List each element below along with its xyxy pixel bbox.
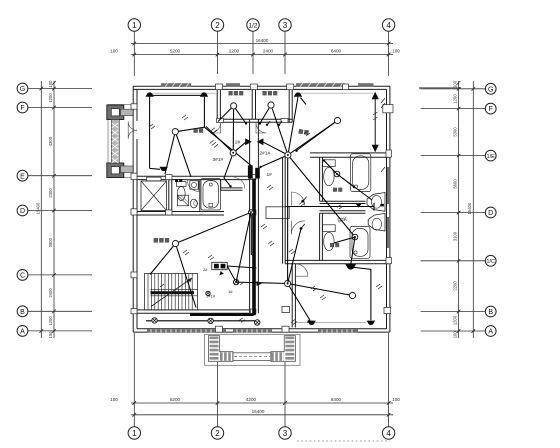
dimension arrow line <box>374 95 376 150</box>
bottom dimension line total <box>131 414 393 416</box>
top grid extension lines <box>134 32 388 77</box>
svg-text:4: 4 <box>386 21 391 30</box>
right dimension labels (rotated) <box>452 80 472 338</box>
corridor lamp X2 <box>208 318 213 323</box>
interior central wall <box>251 89 253 119</box>
black wall fill door jamb right <box>255 168 260 179</box>
svg-text:D: D <box>20 208 25 215</box>
top exterior wall <box>133 85 390 87</box>
right grid bubble G <box>485 83 496 94</box>
label bath 1 <box>333 188 342 192</box>
node N5 <box>285 280 291 286</box>
svg-text:5600: 5600 <box>452 179 457 189</box>
bottom wall window bands <box>147 329 226 332</box>
bedroom top wall <box>285 259 389 261</box>
svg-text:100: 100 <box>392 48 400 53</box>
svg-text:6400: 6400 <box>331 48 342 53</box>
elevator block bottom wall <box>137 211 224 213</box>
svg-text:15400: 15400 <box>35 202 40 214</box>
bath2 light L9 <box>352 234 358 240</box>
bottom dotted mark <box>297 440 390 442</box>
svg-text:100: 100 <box>452 331 457 339</box>
sill line bedroom <box>297 322 366 324</box>
shower pan <box>178 195 189 206</box>
wire L4 branch <box>297 121 338 151</box>
stair well walls <box>137 309 250 311</box>
wire W4 to W6 <box>351 267 371 320</box>
left dimension labels (rotated) <box>35 80 53 339</box>
wire N5 to W5 <box>288 284 310 320</box>
bottom grid bubble 2 <box>211 427 223 439</box>
svg-text:F: F <box>20 105 24 112</box>
svg-text:A: A <box>20 329 25 336</box>
electric riser trunk <box>252 179 256 316</box>
left grid bubble D <box>17 205 28 216</box>
corridor wire right <box>285 206 374 208</box>
label bath 2 <box>330 243 339 247</box>
door arc bath2 <box>291 221 305 235</box>
svg-text:6400: 6400 <box>331 397 342 402</box>
left grid bubble C <box>17 270 28 281</box>
svg-text:G: G <box>20 86 25 93</box>
left grid lines <box>28 89 92 331</box>
tub room east wall <box>220 180 222 191</box>
wire L3 to L6 <box>271 105 288 155</box>
vanity basin 1 <box>367 193 385 212</box>
svg-text:F: F <box>489 106 493 113</box>
svg-text:1/2: 1/2 <box>249 22 258 29</box>
svg-text:1200: 1200 <box>48 93 53 103</box>
hatch anteroom lower <box>289 249 295 254</box>
balcony outer rim <box>205 334 300 365</box>
hatch marks <box>149 98 385 325</box>
wire L5 spokes <box>233 142 246 153</box>
left bay vertical band <box>111 120 119 164</box>
svg-text:100: 100 <box>48 331 53 339</box>
svg-text:1: 1 <box>132 21 137 30</box>
wire L3 branch <box>260 105 271 124</box>
balcony wall right L <box>271 336 296 362</box>
elevator car <box>141 181 167 211</box>
svg-text:2#1#: 2#1# <box>260 151 271 157</box>
svg-text:1: 1 <box>132 429 137 438</box>
wires bath1 <box>324 161 337 175</box>
trunk bottom horizontal <box>190 313 254 316</box>
ceiling light L3 <box>268 102 274 108</box>
central chase wall <box>249 119 251 313</box>
bedroom west wall <box>291 264 293 328</box>
bath 1 bottom wall <box>320 200 366 202</box>
svg-text:B: B <box>20 309 25 316</box>
top grid bubble 3 <box>279 19 291 31</box>
right grid bubble 1/C <box>485 255 496 266</box>
right grid bubble A <box>485 326 496 337</box>
label living room <box>298 129 309 135</box>
washing machine <box>190 181 198 189</box>
svg-text:4300: 4300 <box>48 136 53 146</box>
floor lamp W6 <box>367 321 375 325</box>
wire X3 to J1 <box>236 212 251 282</box>
left grid bubble F <box>17 102 28 113</box>
bottom dimension line segments <box>131 402 393 404</box>
wire L6 spokes <box>263 142 288 155</box>
junction dots <box>245 122 247 124</box>
interior wall rooms bottom <box>217 118 292 120</box>
bottom exterior wall <box>133 331 390 333</box>
balcony center band <box>233 353 271 361</box>
svg-text:2#: 2# <box>203 267 208 272</box>
svg-text:4: 4 <box>386 429 391 438</box>
bottom grid bubble 3 <box>279 427 291 439</box>
hall lamp X3 <box>233 279 238 284</box>
right block top wall <box>310 152 389 154</box>
wire L7 spokes <box>150 244 176 275</box>
label room B <box>263 91 278 95</box>
riser wire <box>149 97 151 169</box>
stair direction arrow <box>151 278 192 307</box>
svg-text:D: D <box>488 210 493 217</box>
bottom dimension ticks <box>133 401 391 416</box>
svg-text:2400: 2400 <box>48 288 53 298</box>
left grid bubble A <box>17 326 28 337</box>
svg-text:1/E: 1/E <box>486 154 495 160</box>
svg-text:100: 100 <box>392 397 400 402</box>
sill line left room <box>152 92 216 94</box>
wire N5 to L8 <box>288 284 353 296</box>
top grid bubble 1 <box>128 19 140 31</box>
sconce up n3 <box>294 92 302 96</box>
ceiling light L1 <box>172 129 178 135</box>
interior wall room B right <box>288 89 290 122</box>
wall lamp W2 <box>245 138 252 145</box>
left grid bubble E <box>17 170 28 181</box>
ceiling light L6 <box>285 152 291 158</box>
wire X3 to N5 <box>236 282 288 283</box>
svg-text:1#1#: 1#1# <box>206 294 216 299</box>
svg-text:100: 100 <box>48 80 53 88</box>
duct box <box>266 207 289 219</box>
wall lamp W3 <box>257 138 264 145</box>
bathtub 1 <box>201 179 221 210</box>
right exterior wall <box>389 86 391 332</box>
small basin <box>194 201 198 206</box>
bath west wall <box>319 157 321 201</box>
svg-text:1200: 1200 <box>452 94 457 104</box>
top dimension labels <box>110 38 400 54</box>
svg-text:4200: 4200 <box>246 397 257 402</box>
left bay stub bottom <box>121 166 133 173</box>
svg-text:G: G <box>488 86 493 93</box>
switch room B a <box>266 124 268 126</box>
understair lamp <box>206 291 210 295</box>
stair handrail <box>151 291 195 294</box>
ceiling light L5 <box>230 150 236 156</box>
bathtub 3 <box>350 227 370 259</box>
top grid bubble 2 <box>211 19 223 31</box>
top grid bubble 1/2 <box>247 19 259 31</box>
svg-text:2300: 2300 <box>48 188 53 198</box>
label elevator hall <box>154 238 170 243</box>
switch bath2 door <box>300 227 303 230</box>
door arc bath1 <box>291 192 305 206</box>
svg-text:B: B <box>488 309 493 316</box>
sill line right room <box>298 92 373 94</box>
toilet T2 <box>323 160 336 167</box>
bay outline <box>108 105 133 178</box>
wire switch2 to N5 <box>288 229 301 284</box>
top wall window bands <box>161 83 191 86</box>
interior wall rooms divider <box>216 89 218 122</box>
right grid bubble D <box>485 207 496 218</box>
balcony wall left L <box>208 336 233 362</box>
washer knobs <box>175 179 178 182</box>
door arc bedroom <box>296 264 308 276</box>
junction dot <box>259 166 261 168</box>
bath1 light L10 <box>334 171 340 177</box>
floor lamp W1 <box>160 167 168 171</box>
bottom grid bubble 1 <box>128 427 140 439</box>
column boxes on walls <box>131 84 393 332</box>
door arc room A <box>210 123 221 134</box>
left bay stub top <box>121 109 133 116</box>
left dimension ticks <box>40 81 56 333</box>
junction dots extra <box>232 152 234 154</box>
svg-text:2: 2 <box>215 429 220 438</box>
bathtub 2 <box>351 154 371 192</box>
right wall window fills <box>387 167 390 204</box>
right dimension ticks <box>457 81 475 333</box>
bedroom sconce W4 <box>345 264 356 270</box>
top dimension ticks <box>133 42 391 57</box>
floor lamp W5 <box>307 321 315 325</box>
right dimension chain lines <box>458 81 460 338</box>
toilet T1 <box>177 182 187 187</box>
bottom grid bubble 4 <box>382 427 394 439</box>
svg-text:1#: 1# <box>228 289 233 294</box>
elevator block top wall <box>137 175 250 177</box>
svg-text:100: 100 <box>110 48 118 53</box>
bottom grid extension lines <box>134 333 388 427</box>
right grid lines <box>421 89 486 331</box>
sconce up n1 <box>146 92 154 96</box>
right grid bubble F <box>485 103 496 114</box>
label room A <box>229 91 244 95</box>
corridor lamp X4 <box>255 320 260 325</box>
top dimension line total <box>131 43 393 45</box>
svg-text:16400: 16400 <box>252 409 265 414</box>
left bay column bottom <box>107 163 124 178</box>
svg-text:2#: 2# <box>235 140 241 146</box>
door arc alcove <box>234 178 245 189</box>
junction lamp J1 <box>248 210 253 215</box>
label terrace <box>193 128 203 133</box>
svg-text:E: E <box>20 173 25 180</box>
sconce up n2 <box>200 92 208 96</box>
right grid bubble 1/E <box>485 150 496 161</box>
right grid bubble B <box>485 306 496 317</box>
wire L2 branch <box>234 106 246 124</box>
svg-text:5200: 5200 <box>170 48 181 53</box>
ceiling light L4 <box>334 117 340 123</box>
svg-text:5200: 5200 <box>170 397 181 402</box>
svg-text:1200: 1200 <box>48 316 53 326</box>
door arc bath block <box>187 180 199 192</box>
svg-text:1200: 1200 <box>452 315 457 325</box>
bath 2 top wall <box>320 210 366 212</box>
svg-text:1/C: 1/C <box>486 259 495 265</box>
wire L1 down <box>175 132 191 177</box>
wire corner to jamb <box>204 127 252 166</box>
bay double door arcs <box>128 122 137 131</box>
ceiling light L8 <box>349 292 355 298</box>
svg-text:2400: 2400 <box>263 48 274 53</box>
right G heavy segment <box>419 87 461 89</box>
svg-text:100: 100 <box>110 397 118 402</box>
alcove wall <box>221 187 243 189</box>
svg-text:2200: 2200 <box>229 48 240 53</box>
svg-text:5300: 5300 <box>452 127 457 137</box>
wire L1 to riser foot <box>165 132 175 174</box>
ceiling light L7 <box>172 240 178 246</box>
corridor wire <box>146 320 256 322</box>
distribution panel <box>212 262 227 269</box>
wire panel to trunk <box>227 266 256 268</box>
svg-text:15400: 15400 <box>467 202 472 214</box>
toilet T3 <box>323 225 336 232</box>
svg-text:A: A <box>488 329 493 336</box>
top grid bubble 4 <box>382 19 394 31</box>
sink S1 <box>190 199 197 208</box>
top dimension line segments <box>131 54 393 56</box>
hall east wall <box>282 157 284 264</box>
ceiling light L2 <box>231 103 237 109</box>
switch room B b <box>278 124 280 126</box>
corridor end box <box>282 307 290 313</box>
left dimension chain lines <box>40 81 42 338</box>
switch bath1 door <box>301 200 304 203</box>
staircase <box>145 274 198 310</box>
svg-text:2: 2 <box>215 21 220 30</box>
door arc room B <box>256 123 267 134</box>
wire L1 to n2 <box>175 97 204 132</box>
elevator shaft side wall <box>168 180 170 212</box>
wire J1 drop <box>250 215 252 255</box>
bottom dimension labels <box>110 397 400 414</box>
wire L2 to L5 <box>232 106 234 153</box>
svg-text:3800: 3800 <box>48 237 53 247</box>
svg-text:3: 3 <box>283 429 288 438</box>
left grid bubble B <box>17 306 28 317</box>
svg-text:2200: 2200 <box>452 281 457 291</box>
svg-text:100: 100 <box>452 80 457 88</box>
svg-text:3#1#: 3#1# <box>213 157 224 163</box>
left grid bubble G <box>17 83 28 94</box>
black wall fill door jamb left <box>248 165 253 178</box>
svg-text:C: C <box>20 273 25 280</box>
left exterior wall <box>132 86 134 332</box>
corridor lamp X1 <box>152 318 157 323</box>
wire panel to X3 <box>227 266 236 282</box>
svg-text:16400: 16400 <box>256 38 269 43</box>
svg-text:1#: 1# <box>267 172 273 178</box>
wire L9 <box>334 237 355 243</box>
left bay column top <box>107 105 124 120</box>
wire along top wall <box>150 94 205 96</box>
bath tub partition <box>199 180 201 212</box>
svg-text:3: 3 <box>283 21 288 30</box>
floor drain <box>209 203 213 207</box>
svg-text:3100: 3100 <box>452 231 457 241</box>
vanity basin 2 <box>368 213 385 231</box>
